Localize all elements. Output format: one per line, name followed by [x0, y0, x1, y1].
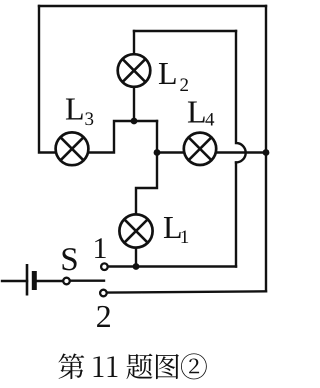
lamp L3 [56, 132, 89, 165]
wire: inner right vertical lower [235, 162, 237, 266]
lamp L2 [118, 54, 151, 87]
label L3 [66, 99, 93, 126]
label S (switch) [63, 248, 77, 270]
junction B: node joining A, L4, L1 [154, 149, 161, 156]
wire: L2 top lead [133, 31, 135, 54]
label contact 2 [97, 306, 110, 327]
wire: L2 bottom lead to junction A [133, 86, 135, 121]
wire: battery positive to switch pivot [34, 280, 63, 282]
wire: inner right vertical upper, hop over L4 wire [236, 31, 246, 162]
battery: short thick plate [32, 271, 37, 290]
lamp L4 [184, 133, 216, 165]
wire: junction A down to junction B [156, 121, 158, 153]
junction: L1 bottom on contact-1 wire [133, 263, 140, 270]
wire: outer top [39, 5, 266, 7]
switch S blade [70, 280, 104, 282]
wire: L4 right to outer right vertical [217, 151, 267, 153]
caption: 第 11 题图② [58, 353, 206, 379]
wire: L3 right, jog up to node A level [89, 121, 158, 153]
lamp L1 [119, 214, 152, 247]
battery: long plate [26, 264, 29, 296]
wire: contact 2 to outer right vertical [107, 291, 266, 292]
label L1 [164, 217, 188, 243]
label L4 [188, 102, 214, 126]
contact 1 [101, 263, 108, 270]
junction: L4 right on outer vertical [263, 149, 270, 156]
switch S pivot contact [63, 278, 70, 285]
wire: outer left side down to L3 [39, 6, 56, 153]
contact 2 [100, 290, 107, 297]
wire: junction B down jog to L1 top [136, 153, 157, 215]
wire: battery left lead [2, 280, 27, 282]
junction A: L2 lead joins jog wire [131, 118, 138, 125]
wire: L1 bottom lead [135, 248, 137, 267]
wire: outer right side [265, 6, 267, 291]
label L2 [159, 63, 188, 91]
wire: junction B to L4 left [157, 151, 184, 153]
wire: contact 1 to inner vertical [108, 265, 236, 267]
label contact 1 [95, 238, 106, 258]
wire: inner top horizontal [134, 30, 236, 32]
